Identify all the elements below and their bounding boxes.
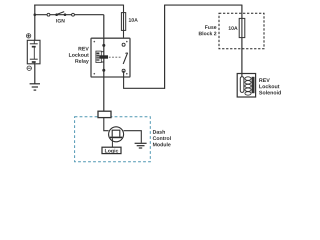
relay coil <box>96 51 108 62</box>
wire: relay output down and right <box>124 71 165 89</box>
solenoid core bar <box>252 77 255 93</box>
relay contact terminal bottom <box>122 69 125 72</box>
wire: solenoid feed stub <box>241 74 243 78</box>
label REV Lockout Relay <box>69 47 89 64</box>
wire: battery positive riser <box>34 5 36 41</box>
wire: through fuse F2 <box>241 18 243 37</box>
transistor driver <box>109 127 124 142</box>
ground of battery <box>30 84 40 90</box>
fuse block 2 dashed box <box>219 13 264 48</box>
dash control module dashed box <box>75 117 151 162</box>
wire: right riser <box>164 5 166 89</box>
battery positive terminal symbol <box>26 34 30 38</box>
wire: fuse block 2 drop to solenoid <box>241 5 243 77</box>
label IGN <box>56 19 64 23</box>
node: relay coil top pin dot <box>102 44 105 47</box>
node: relay coil bottom pin dot <box>102 69 105 72</box>
label Logic <box>105 149 118 154</box>
wire: transistor source to ground <box>124 131 142 143</box>
relay corner pin dots <box>94 41 128 75</box>
solenoid plunger <box>240 77 244 93</box>
relay actuation dashed link <box>109 56 121 58</box>
wire: battery negative to ground <box>34 64 36 84</box>
wire: IGN drop to relay coil <box>103 15 105 46</box>
label 10A of fuse F1 <box>129 18 138 22</box>
relay box <box>91 38 130 77</box>
wire: relay coil to module <box>103 77 105 111</box>
battery <box>27 40 40 64</box>
wire: connector to transistor gate <box>104 118 109 131</box>
fuse F2 10A <box>239 18 245 37</box>
ground of module <box>135 143 147 148</box>
wire: coil through-wire inside relay <box>103 38 105 77</box>
battery negative terminal symbol <box>27 66 31 70</box>
switch IGN <box>47 12 74 17</box>
solenoid coil loops <box>245 77 251 95</box>
label 10A of fuse F2 <box>229 26 238 30</box>
node: junction of battery feed and IGN branch <box>34 13 37 16</box>
logic box <box>102 147 121 153</box>
wire: top feed to fuse block 2 <box>165 4 242 6</box>
relay contact terminal top <box>122 43 125 46</box>
label Fuse Block 2 <box>199 25 217 35</box>
label Dash Control Module <box>153 130 171 146</box>
module input connector <box>98 111 111 117</box>
wire: transistor to logic block <box>111 138 113 147</box>
solenoid box <box>237 74 255 98</box>
label REV Lockout Solenoid <box>259 78 281 94</box>
relay contact blade <box>123 53 127 64</box>
fuse F1 10A <box>121 13 125 31</box>
wire: top feed from battery to fuse F1 <box>34 4 123 6</box>
wire: IGN branch <box>35 14 104 16</box>
wire: fuse F1 drop to relay contact <box>123 5 125 44</box>
